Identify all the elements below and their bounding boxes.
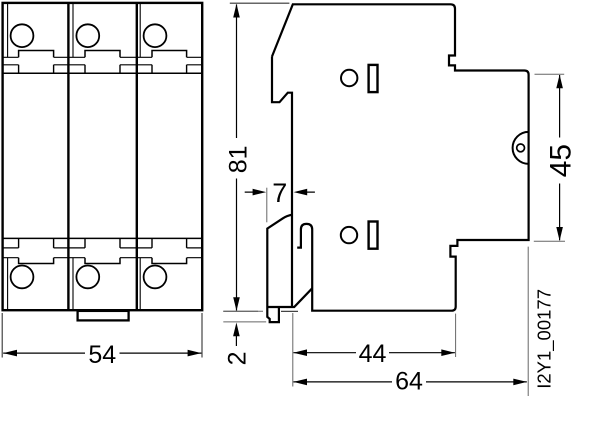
fuse window circle module 3 top [144,24,167,47]
dimension 7 arrow pointing left [294,189,308,196]
fuse window circle module 3 bottom [144,266,167,289]
bottom notch line segments [3,247,203,249]
dimension 64 line [293,381,526,383]
dimension 2 arrow up [233,323,240,337]
dimension 81 arrow bottom [233,297,240,311]
side view slot top [369,65,378,92]
side view left edge and rail notch [272,57,292,308]
top shelf line segments [3,56,203,58]
dimension 44 extension line left [292,313,294,387]
dimension 81 label [224,145,252,173]
bottom terminal tab module 3 [152,258,187,264]
bottom terminal tab module 1 [19,258,54,264]
top terminal tab module 3 [152,51,187,58]
top terminal tab module 2 [85,51,120,58]
top notch line segments [3,64,203,66]
bottom terminal tab module 2 [85,258,120,264]
dimension 2 label [224,351,252,365]
hidden edge line right of clip foot [281,310,298,312]
dimension 81 line [236,5,238,311]
svg-text:54: 54 [88,341,116,369]
dimension 81 extension line top [230,2,290,4]
DIN rail clip body [267,215,292,323]
dimension 81 extension line bottom [223,310,258,312]
dimension 2 extension line top [223,310,263,312]
dimension 81 arrow top [233,4,240,18]
module 3 inner edge line top [139,4,141,58]
dimension 45 extension line top [535,73,565,75]
screw fixing lug arc on right edge [513,132,529,164]
svg-text:7: 7 [272,178,287,208]
module 2 inner edge line top [72,4,74,58]
part number I2Y1_00177 [534,289,556,389]
dimension 44 extension line right [455,314,457,357]
module 1 inner edge line top [7,4,9,58]
side view sealing eye circle bottom [341,227,357,243]
bottom cover edge full line [3,237,203,239]
svg-text:44: 44 [359,340,387,368]
bottom notch verticals [19,238,187,248]
dimension 2 line [235,336,237,346]
top terminal tab module 1 [19,51,54,58]
module 3 inner edge line bottom [139,258,141,310]
top notch verticals [19,65,187,74]
side view slot bottom [369,222,378,249]
module 2 inner edge line bottom [72,258,74,310]
svg-text:45: 45 [545,144,578,177]
dimension 7 arrow pointing right [253,189,267,196]
dimension 54 line [3,352,201,354]
dimension 54 arrow right [188,350,202,357]
module divider line 1 [67,3,69,310]
dimension 7 line with outside arrows [245,191,315,193]
side view sealing eye circle top [341,70,357,86]
dimension 54 extension line left [1,313,3,358]
dimension 2 extension line bottom [223,321,266,323]
fuse window circle module 1 top [11,24,34,47]
dimension 45 arrow top [556,75,563,89]
dimension 54 extension line right [201,313,203,358]
dimension 64 extension line right [527,247,529,396]
side view main outline right [272,4,529,310]
clip shelf and release slope diagonal [267,288,312,307]
dimension 45 extension line bottom [534,240,565,242]
dimension 64 arrow right [513,379,527,386]
top cover edge full line [3,72,203,74]
dimension 45 arrow bottom [556,227,563,241]
svg-text:81: 81 [224,145,252,173]
fuse window circle module 1 bottom [11,266,34,289]
dimension 45 label [545,144,578,177]
svg-text:I2Y1_00177: I2Y1_00177 [534,289,556,389]
screw fixing lug hole [517,144,525,152]
fuse window circle module 2 bottom [76,266,99,289]
dimension 44 arrow left [293,349,307,356]
dimension 7 extension line [266,188,268,223]
dimension 44 line [293,352,455,354]
front view outer housing border [3,3,203,310]
svg-text:64: 64 [395,368,423,396]
bottom shelf line segments [3,257,203,259]
svg-text:2: 2 [224,351,252,365]
module divider line 2 [136,3,138,310]
dimension 54 arrow left [3,350,17,357]
fuse window circle module 2 top [76,24,99,47]
dimension 45 line [559,75,561,240]
module 1 inner edge line bottom [7,258,9,310]
dimension 64 arrow left [293,379,307,386]
bottom mounting tab of front view [78,311,129,321]
dimension 44 arrow right [441,349,455,356]
